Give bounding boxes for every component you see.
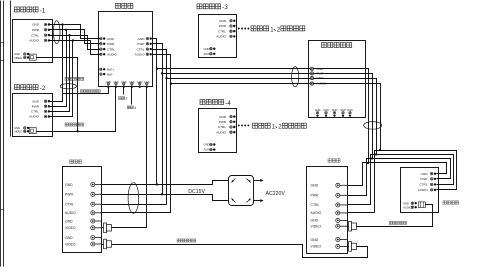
svg-text:CTRL: CTRL — [31, 110, 39, 114]
svg-text:GND: GND — [323, 109, 329, 112]
svg-text:GND: GND — [32, 23, 40, 27]
svg-text:GND: GND — [219, 115, 227, 119]
svg-text:CTRL: CTRL — [65, 203, 74, 207]
svg-text:AUDIO: AUDIO — [216, 35, 226, 39]
svg-text:GND: GND — [65, 219, 73, 223]
svg-text:AUDIO: AUDIO — [29, 39, 39, 43]
svg-text:PWR: PWR — [420, 177, 428, 181]
svg-text:CTRL: CTRL — [218, 125, 226, 129]
svg-text:BaT-: BaT- — [107, 72, 113, 76]
svg-text:GND: GND — [137, 81, 143, 84]
svg-text:CTRL: CTRL — [311, 203, 320, 207]
svg-text:GND: GND — [107, 37, 115, 41]
svg-text:PWR: PWR — [137, 42, 145, 46]
svg-text:GND: GND — [65, 236, 73, 240]
svg-text:GND: GND — [421, 172, 429, 176]
svg-text:GND: GND — [138, 37, 146, 41]
svg-text:GND: GND — [347, 109, 353, 112]
svg-text:PWR: PWR — [107, 42, 115, 46]
svg-text:GND: GND — [32, 99, 40, 103]
svg-text:VIDEO: VIDEO — [14, 130, 22, 134]
svg-text:PWR: PWR — [65, 193, 73, 197]
svg-text:GND: GND — [315, 109, 321, 112]
svg-text:VIDEO: VIDEO — [14, 56, 22, 60]
svg-text:-4: -4 — [225, 100, 231, 107]
svg-text:VIDEO: VIDEO — [311, 225, 322, 229]
svg-text:GND: GND — [332, 109, 338, 112]
svg-text:PWR: PWR — [317, 72, 325, 76]
svg-text:3: 3 — [126, 97, 128, 101]
svg-text:CTRL: CTRL — [317, 76, 325, 80]
svg-text:4: 4 — [134, 106, 136, 110]
svg-text:CTRL: CTRL — [218, 29, 226, 33]
svg-text:GND: GND — [317, 67, 325, 71]
svg-text:CTRL: CTRL — [419, 183, 427, 187]
svg-text:-2: -2 — [40, 85, 46, 92]
svg-text:AUDIO: AUDIO — [403, 206, 412, 210]
svg-text:PWR: PWR — [219, 120, 227, 124]
svg-text:VIDEO: VIDEO — [311, 245, 322, 249]
svg-text:-3: -3 — [222, 4, 228, 11]
svg-text:GND: GND — [121, 81, 127, 84]
svg-text:PWR: PWR — [311, 194, 319, 198]
svg-text:GND: GND — [144, 81, 150, 84]
svg-text:DC15V: DC15V — [188, 189, 205, 195]
svg-text:GND: GND — [311, 219, 319, 223]
svg-text:AUDIO: AUDIO — [311, 211, 322, 215]
svg-text:AUDIO: AUDIO — [107, 53, 117, 57]
svg-text:BaT+: BaT+ — [107, 68, 115, 72]
svg-text:GND: GND — [204, 143, 210, 147]
svg-text:AUDIO: AUDIO — [418, 188, 428, 192]
svg-text:CTRL: CTRL — [136, 47, 144, 51]
svg-text:GND: GND — [204, 47, 210, 51]
svg-text:PWR: PWR — [32, 105, 40, 109]
svg-text:GND: GND — [106, 81, 112, 84]
svg-text:CTRL: CTRL — [31, 33, 39, 37]
svg-text:AUDIO: AUDIO — [317, 82, 327, 86]
svg-text:GND: GND — [65, 183, 73, 187]
svg-text:GND: GND — [219, 19, 227, 23]
svg-text:GND: GND — [14, 52, 20, 56]
svg-text:GND: GND — [403, 201, 409, 205]
svg-text:AUDIO: AUDIO — [135, 53, 145, 57]
svg-text:PWR: PWR — [219, 24, 227, 28]
svg-text:GND: GND — [129, 81, 135, 84]
svg-text:AC220V: AC220V — [266, 191, 286, 197]
svg-text:GND: GND — [340, 109, 346, 112]
svg-text:GND: GND — [311, 238, 319, 242]
svg-text:PWR: PWR — [32, 28, 40, 32]
svg-text:AUDIO: AUDIO — [65, 211, 76, 215]
svg-text:VIDEO: VIDEO — [65, 242, 76, 246]
svg-text:VIDEO: VIDEO — [65, 226, 76, 230]
svg-text:GND: GND — [311, 184, 319, 188]
svg-text:AUDIO: AUDIO — [216, 130, 226, 134]
svg-text:GND: GND — [113, 81, 119, 84]
svg-text:AUDIO: AUDIO — [29, 115, 39, 119]
svg-text:-1: -1 — [40, 7, 46, 14]
svg-text:CTRL: CTRL — [107, 47, 115, 51]
svg-text:GND: GND — [14, 126, 20, 130]
